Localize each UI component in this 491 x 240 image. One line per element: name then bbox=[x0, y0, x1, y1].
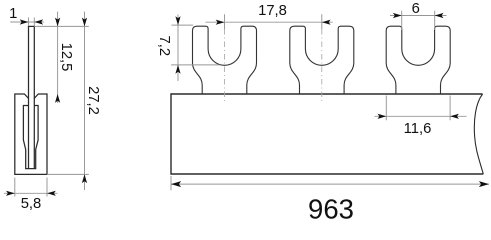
housing-bottom extension line bbox=[47, 173, 89, 175]
busbar break line bbox=[474, 94, 483, 174]
dim 11,6: extension lines bbox=[386, 96, 450, 121]
center line fork 1 bbox=[224, 29, 226, 103]
svg-text:17,8: 17,8 bbox=[258, 3, 287, 19]
dim 6: dimension line bbox=[390, 15, 447, 17]
svg-text:27,2: 27,2 bbox=[85, 86, 101, 115]
svg-text:963: 963 bbox=[308, 194, 354, 220]
dim 7,2 arrows bbox=[175, 16, 180, 25]
svg-text:6: 6 bbox=[412, 1, 420, 17]
dim 27,2 arrows bbox=[82, 18, 87, 27]
dim 6 arrows bbox=[393, 13, 402, 18]
dim 5,8: dimension line bbox=[4, 192, 58, 194]
busbar body bbox=[171, 94, 483, 174]
dim 1 arrows bbox=[20, 19, 29, 24]
dim 27,2: dimension line bbox=[84, 12, 86, 190]
housing inner cavity bbox=[23, 106, 38, 169]
insulation housing outline bbox=[15, 94, 47, 174]
dim 5,8: extension lines bbox=[15, 178, 47, 197]
dim 11,6 arrows bbox=[378, 114, 387, 119]
dim 12,5: dimension line bbox=[57, 12, 59, 103]
svg-text:1: 1 bbox=[9, 6, 17, 22]
conductor blade (side view) bbox=[29, 26, 35, 168]
blade-top extension line bbox=[34, 25, 89, 27]
dim 1: dimension line bbox=[10, 21, 44, 23]
svg-text:7,2: 7,2 bbox=[156, 36, 172, 57]
dim 963: dimension line bbox=[171, 183, 489, 185]
dim 11,6: dimension line bbox=[375, 115, 467, 117]
dim 7,2: extension lines bbox=[171, 25, 219, 65]
dim 6: extension lines bbox=[402, 11, 435, 30]
dim 5,8 arrows bbox=[6, 191, 15, 196]
dim 17,8 arrows bbox=[216, 20, 225, 25]
dim 963: extension line bbox=[170, 176, 172, 190]
dim 17,8: dimension line bbox=[206, 21, 333, 23]
svg-text:12,5: 12,5 bbox=[58, 43, 74, 72]
fork contact 3 bbox=[386, 26, 450, 94]
dim 12,5 arrows bbox=[55, 18, 60, 27]
fork contact 2 bbox=[290, 26, 354, 94]
fork contact 1 bbox=[193, 26, 257, 94]
dim 1: extension lines above blade bbox=[29, 18, 35, 27]
dim 963 arrows (inside, pointing outward) bbox=[171, 181, 181, 187]
svg-text:5,8: 5,8 bbox=[21, 196, 42, 212]
center line fork 2 bbox=[321, 29, 323, 103]
dim 7,2: dimension line bbox=[177, 15, 179, 82]
svg-text:11,6: 11,6 bbox=[404, 121, 432, 137]
